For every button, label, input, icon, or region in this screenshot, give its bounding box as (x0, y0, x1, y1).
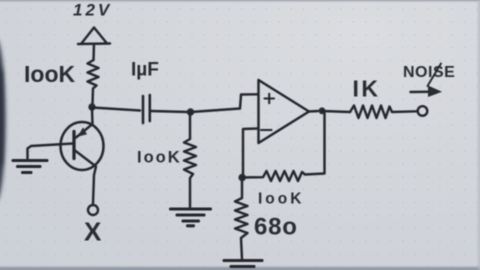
inverting input wire (243, 129, 258, 175)
wire capacitor to dot2 (151, 111, 188, 112)
feedback resistor R3 100K horizontal (242, 113, 325, 181)
wire 12V stem (92, 44, 95, 60)
emitter line with wire up to dot1 (76, 109, 93, 138)
wire dot1 to capacitor (92, 108, 140, 111)
svg-text:IooK: IooK (258, 191, 304, 208)
noise arrow (411, 91, 432, 94)
supply arrow (12V) (78, 28, 110, 45)
resistor R4 1K horizontal (350, 106, 417, 119)
output wire and node dot 4 (309, 110, 318, 113)
svg-text:IooK: IooK (24, 61, 75, 87)
minus sign (261, 129, 272, 131)
plus sign (265, 94, 275, 103)
svg-text:IK: IK (353, 76, 381, 102)
svg-text:X: X (84, 217, 102, 247)
capacitor C1 1uF (143, 95, 150, 123)
ground under 680 (224, 261, 262, 267)
base wire to ground (28, 144, 74, 159)
node junction dot 3 (238, 174, 246, 182)
op-amp U1 (259, 80, 310, 143)
svg-text:IooK: IooK (137, 149, 182, 167)
resistor R2 100K vertical (184, 112, 196, 207)
ground at base (13, 161, 47, 173)
resistor R5 680 vertical (235, 181, 248, 259)
transistor Q1 (PNP) (61, 122, 104, 170)
svg-text:IµF: IµF (131, 60, 159, 81)
resistor R1 100K vertical (88, 60, 99, 104)
slash through S (428, 64, 442, 87)
collector line down to X terminal (75, 151, 96, 204)
node junction dot 2 (187, 108, 194, 115)
wire dot2 to op-amp plus input (191, 94, 258, 112)
PNP arrow head (78, 127, 88, 136)
svg-text:12V: 12V (73, 1, 112, 20)
svg-text:NOISE: NOISE (403, 64, 455, 81)
terminal X open circle (88, 205, 98, 215)
svg-text:68o: 68o (254, 214, 298, 241)
terminal NOISE open circle (418, 106, 428, 116)
ground under R2 (171, 209, 211, 226)
node junction dot 1 (88, 103, 95, 110)
